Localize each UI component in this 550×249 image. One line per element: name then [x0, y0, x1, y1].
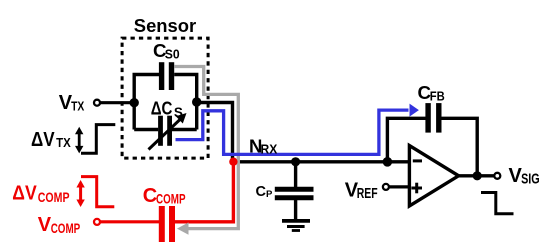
svg-text:S: S	[174, 105, 183, 120]
wire sensor output to NRX	[197, 103, 233, 162]
svg-text:REF: REF	[357, 186, 378, 202]
svg-text:ΔC: ΔC	[151, 98, 173, 118]
label VSIG	[509, 165, 540, 188]
svg-text:RX: RX	[261, 142, 278, 157]
junction node right	[192, 97, 201, 106]
capacitor CS0	[162, 62, 172, 90]
label VREF	[345, 179, 378, 202]
label VTX	[59, 92, 85, 114]
junction node NRX (red)	[229, 158, 237, 166]
svg-text:COMP: COMP	[51, 220, 80, 236]
ground	[282, 221, 310, 231]
label Sensor	[134, 16, 196, 36]
label CP	[256, 184, 274, 200]
capacitor CP	[275, 189, 314, 198]
svg-text:C: C	[256, 184, 267, 200]
wire op-amp output	[456, 174, 494, 177]
sensor dashed box	[122, 38, 208, 158]
waveform VSIG step	[481, 193, 514, 214]
wire feedback right leg	[441, 118, 477, 176]
wire node NRX horizontal	[231, 160, 410, 163]
wire VTX to sensor	[100, 101, 136, 104]
waveform VTX step	[81, 125, 115, 154]
label deltaVTX	[31, 129, 71, 151]
wire feedback left leg	[387, 118, 425, 163]
label deltaVCOMP	[12, 182, 69, 205]
svg-text:Sensor: Sensor	[134, 16, 196, 36]
junction node CP	[291, 157, 300, 166]
wire deltaCS left	[134, 128, 158, 131]
gray charge path CS0 to CCOMP	[175, 67, 239, 235]
wire sensor right branch	[174, 75, 197, 130]
terminal VSIG	[494, 173, 500, 179]
wire deltaCS right	[172, 128, 197, 131]
svg-text:COMP: COMP	[156, 191, 186, 207]
wire VCOMP to CCOMP	[100, 220, 159, 223]
svg-text:ΔV: ΔV	[12, 182, 37, 204]
svg-text:V: V	[38, 214, 52, 236]
waveform VCOMP step	[81, 177, 114, 207]
wire CCOMP to node NRX	[175, 163, 234, 222]
capacitor deltaCS (variable)	[149, 113, 187, 150]
svg-text:FB: FB	[430, 88, 445, 103]
terminal VTX	[94, 100, 100, 106]
blue charge path deltaCS to CFB	[176, 104, 419, 155]
junction node left	[130, 98, 139, 107]
svg-text:SIG: SIG	[521, 172, 540, 188]
label NRX	[249, 135, 277, 156]
svg-text:TX: TX	[56, 135, 71, 150]
label CFB	[418, 82, 445, 104]
svg-text:COMP: COMP	[38, 189, 70, 205]
capacitor CCOMP	[162, 206, 172, 242]
svg-text:P: P	[266, 189, 273, 200]
svg-text:TX: TX	[71, 99, 85, 113]
terminal VREF	[383, 184, 389, 190]
label VCOMP	[38, 214, 80, 236]
op-amp U1	[409, 146, 458, 206]
junction node output	[473, 171, 482, 180]
terminal VCOMP	[94, 219, 100, 225]
label deltaCS	[151, 98, 183, 120]
arrow deltaVTX amplitude	[75, 127, 83, 154]
arrow deltaVCOMP amplitude	[76, 180, 84, 207]
wire VREF to op-amp	[389, 185, 411, 188]
label CCOMP	[143, 185, 186, 207]
wire CP to ground	[294, 200, 297, 221]
capacitor CFB	[428, 103, 439, 133]
svg-text:ΔV: ΔV	[31, 129, 55, 151]
label CS0	[153, 40, 180, 62]
svg-text:S0: S0	[165, 47, 180, 62]
wire NRX to CP	[294, 162, 297, 188]
junction node inverting input	[383, 157, 393, 167]
wire sensor left branch	[134, 75, 159, 130]
